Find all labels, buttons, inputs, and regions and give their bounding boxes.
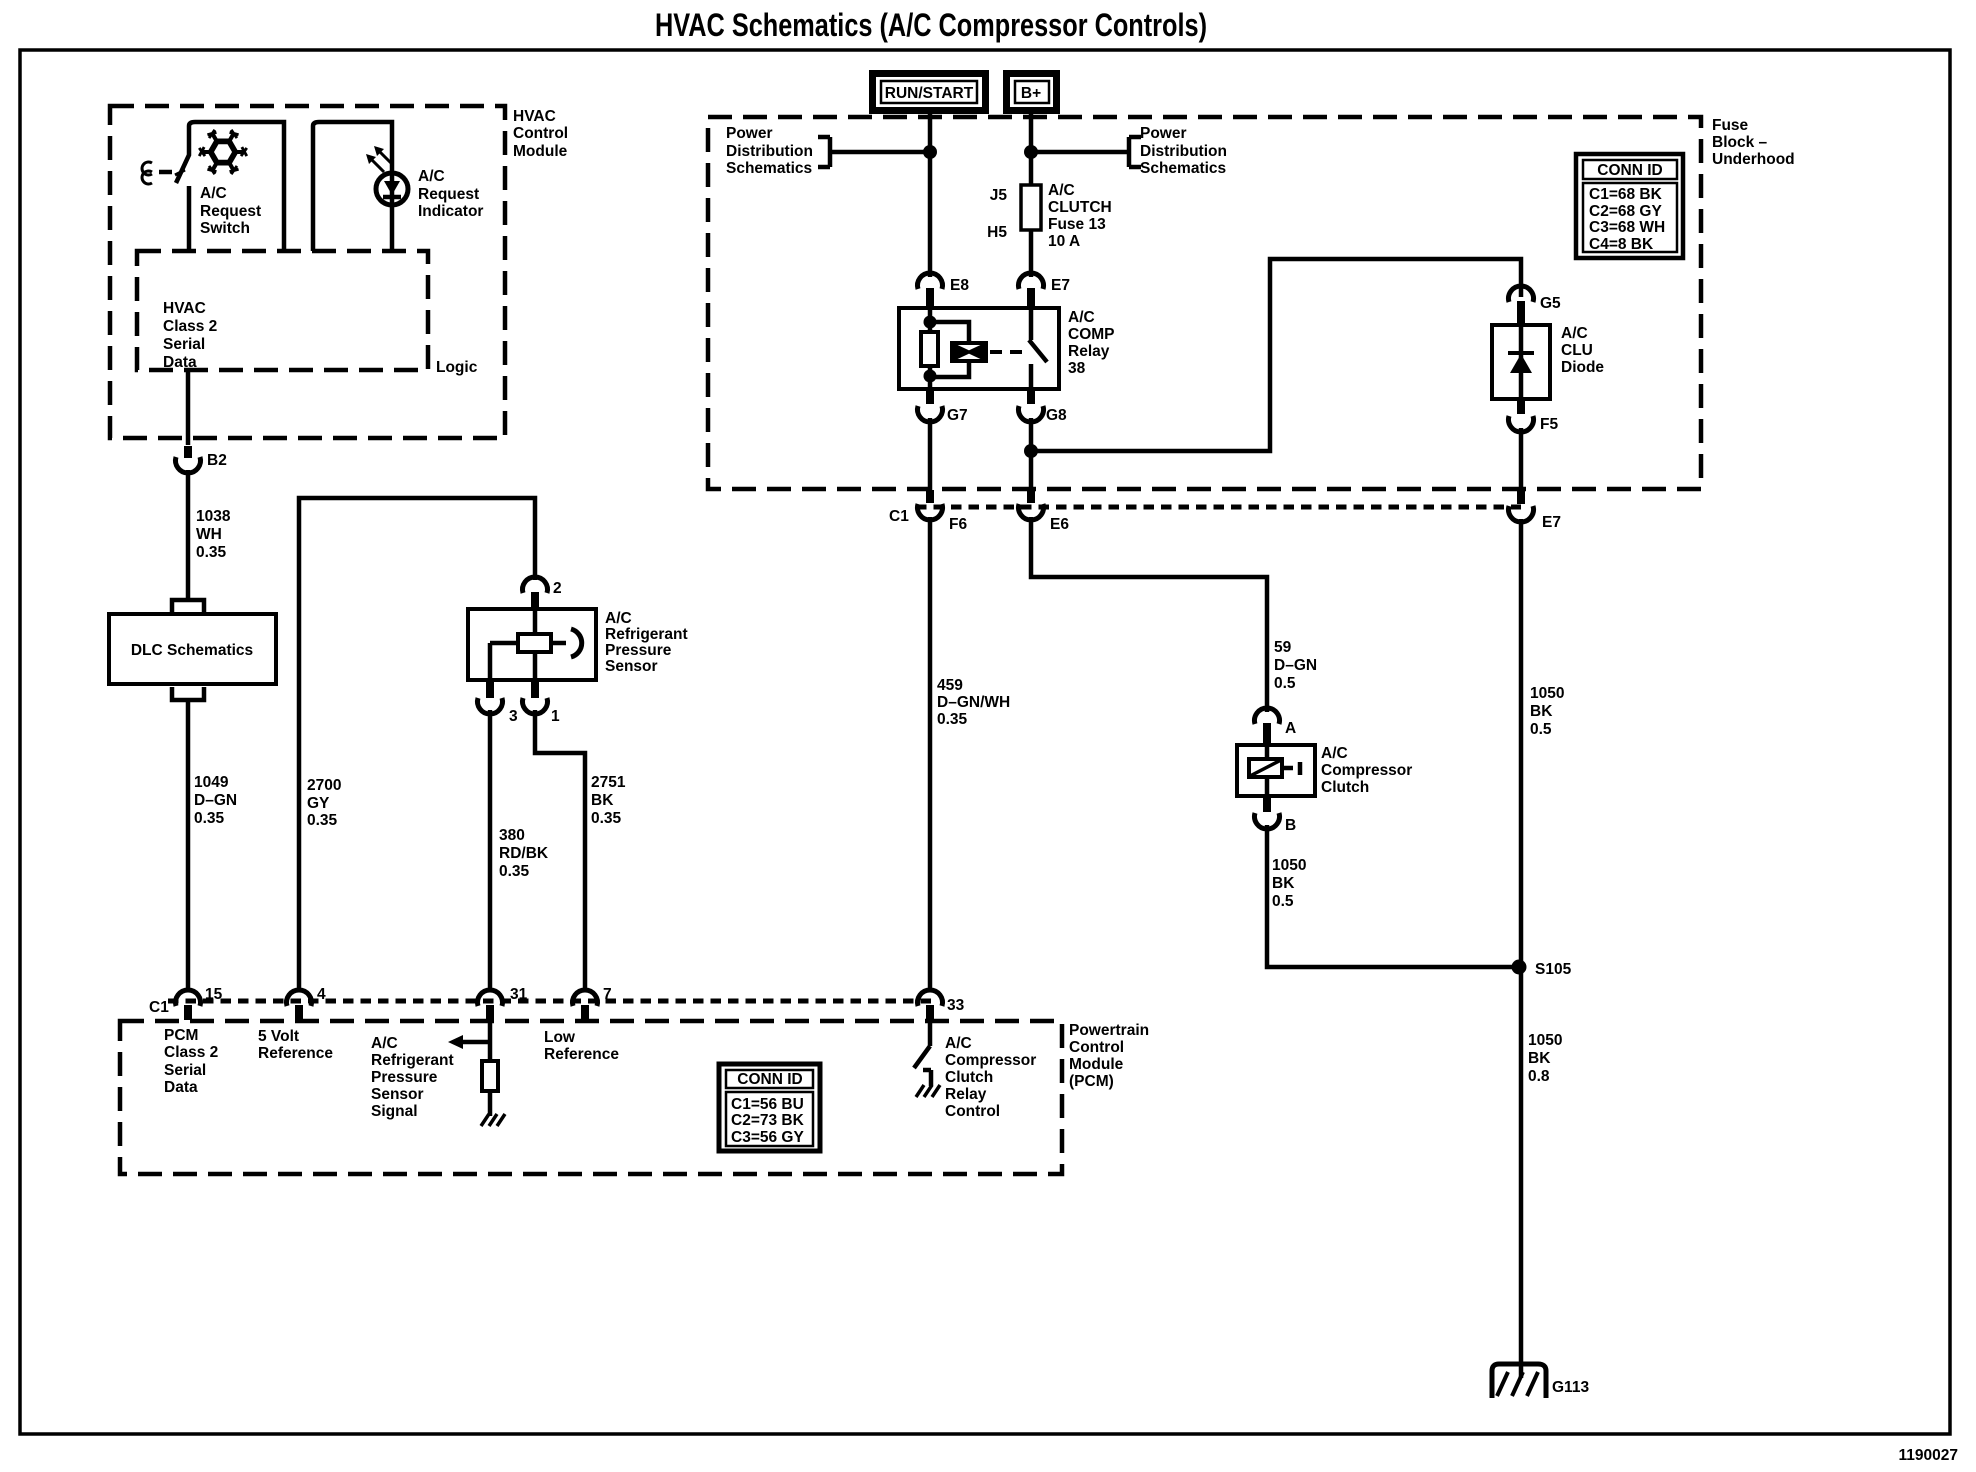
svg-text:0.35: 0.35 [196,544,227,561]
A/C request switch lower contact [187,186,192,251]
relay resistor [921,332,938,366]
svg-text:(PCM): (PCM) [1069,1073,1114,1090]
svg-text:1: 1 [551,708,560,725]
svg-text:Power: Power [726,125,773,142]
svg-text:0.35: 0.35 [591,810,622,827]
connector G8 [1027,389,1035,404]
svg-text:E6: E6 [1050,516,1069,533]
svg-text:BK: BK [1528,1050,1551,1067]
svg-text:J5: J5 [990,187,1008,204]
svg-text:PCM: PCM [164,1027,198,1044]
wire B+ to fuse [1031,114,1129,277]
svg-text:Fuse 13: Fuse 13 [1048,216,1106,233]
svg-text:HVAC: HVAC [163,300,206,317]
svg-text:D–GN/WH: D–GN/WH [937,694,1010,711]
A/C CLU diode box [1519,325,1524,399]
splice S105 [1512,960,1527,975]
svg-text:Data: Data [163,354,197,371]
svg-text:Control: Control [1069,1039,1124,1056]
svg-text:BK: BK [1272,875,1295,892]
svg-text:Indicator: Indicator [418,203,483,220]
connector G7 [926,389,934,404]
A/C compressor clutch box [1237,745,1315,796]
A/C request indicator LED D1 [376,173,408,205]
svg-text:5 Volt: 5 Volt [258,1028,299,1045]
svg-text:WH: WH [196,526,222,543]
svg-text:Refrigerant: Refrigerant [605,626,688,643]
svg-text:B: B [1285,817,1296,834]
connector pin 4 [287,990,312,1006]
svg-text:31: 31 [510,986,528,1003]
wire 1050 BK 0.5 (clutch to S105) [1267,825,1512,967]
svg-text:Powertrain: Powertrain [1069,1022,1149,1039]
svg-text:C2=68 GY: C2=68 GY [1589,203,1662,220]
svg-text:Pressure: Pressure [371,1069,438,1086]
svg-text:D–GN: D–GN [194,792,237,809]
svg-text:Relay: Relay [945,1086,987,1103]
relay coil branch wires [930,308,969,389]
svg-text:Serial: Serial [163,336,205,353]
svg-text:2700: 2700 [307,777,341,794]
svg-text:Data: Data [164,1079,198,1096]
LED arrows [372,152,392,172]
svg-text:C3=56 GY: C3=56 GY [731,1129,804,1146]
svg-text:15: 15 [205,986,223,1003]
connector pin 7 [573,990,598,1006]
wire 59 D-GN [1031,517,1267,712]
svg-text:1050: 1050 [1528,1032,1562,1049]
logic dashed box [137,251,428,370]
fuse block dashed box [708,117,1701,489]
connector pin 33 [918,990,943,1006]
svg-text:H5: H5 [987,224,1007,241]
A/C request switch blade and frame [176,122,284,251]
connector pin 31 [477,990,502,1006]
svg-text:BK: BK [1530,703,1553,720]
connector F6 [918,504,943,520]
svg-text:380: 380 [499,827,525,844]
svg-text:1038: 1038 [196,508,231,525]
svg-text:4: 4 [317,986,326,1003]
svg-text:A: A [1285,720,1296,737]
svg-text:E8: E8 [950,277,969,294]
svg-text:Class 2: Class 2 [163,318,217,335]
connector G5 [1509,286,1534,302]
svg-text:G5: G5 [1540,295,1561,312]
wire 1050 BK 0.5 (E7 down) [1519,519,1524,1378]
svg-text:Low: Low [544,1029,576,1046]
svg-text:CLUTCH: CLUTCH [1048,199,1112,216]
svg-text:1050: 1050 [1530,685,1564,702]
svg-text:HVAC Schematics (A/C Compresso: HVAC Schematics (A/C Compressor Controls… [655,7,1207,43]
svg-text:2: 2 [553,580,562,597]
connector F5 [1517,399,1525,414]
svg-text:Logic: Logic [436,359,478,376]
svg-text:CLU: CLU [1561,342,1593,359]
wire 2751 BK [535,710,585,988]
svg-text:E7: E7 [1051,277,1070,294]
connector pin 3 [486,682,494,698]
wire from logic box to B2 [186,370,191,445]
svg-text:10 A: 10 A [1048,233,1080,250]
svg-text:A/C: A/C [1321,745,1348,762]
svg-text:1190027: 1190027 [1899,1447,1959,1464]
svg-text:Distribution: Distribution [1140,143,1227,160]
svg-text:B+: B+ [1021,85,1041,102]
connector E7 [1019,273,1044,289]
connector pin 2 [523,577,548,593]
svg-text:F5: F5 [1540,416,1558,433]
svg-text:2751: 2751 [591,774,626,791]
svg-text:S105: S105 [1535,961,1572,978]
svg-text:Diode: Diode [1561,359,1604,376]
svg-text:F6: F6 [949,516,967,533]
svg-text:1049: 1049 [194,774,229,791]
svg-text:C1=68 BK: C1=68 BK [1589,186,1663,203]
A/C request switch S (terminal bracket) [142,162,152,184]
connector B [1263,796,1271,812]
ground G113 [1492,1364,1546,1398]
connector C1 pin 15 [176,990,201,1006]
connector pin 1 [531,682,539,698]
svg-text:E7: E7 [1542,514,1561,531]
diode symbol [1508,351,1534,355]
svg-text:Schematics: Schematics [1140,160,1226,177]
in-line connector below DLC [172,687,204,700]
svg-text:HVAC: HVAC [513,108,556,125]
svg-text:0.5: 0.5 [1530,721,1552,738]
connector E6 [1019,504,1044,520]
B+ feed box [1007,74,1057,111]
svg-text:Serial: Serial [164,1062,206,1079]
svg-text:A/C: A/C [1068,309,1095,326]
svg-text:Control: Control [513,125,568,142]
svg-text:Schematics: Schematics [726,160,812,177]
svg-text:Compressor: Compressor [1321,762,1412,779]
svg-text:Sensor: Sensor [371,1086,424,1103]
svg-text:A/C: A/C [200,185,227,202]
fuse block bottom connector row dotted line [916,505,1521,510]
connector A [1255,708,1280,724]
svg-text:7: 7 [603,986,612,1003]
svg-text:C4=8 BK: C4=8 BK [1589,236,1654,253]
wire 1038 WH [186,470,191,598]
svg-text:Module: Module [513,143,568,160]
svg-text:BK: BK [591,792,614,809]
svg-text:C1: C1 [889,508,909,525]
svg-text:C3=68 WH: C3=68 WH [1589,219,1665,236]
connector E8 [918,273,943,289]
wire G8 to E6 and diode loop [1031,259,1521,492]
svg-text:Relay: Relay [1068,343,1110,360]
wire F5 to E7 [1519,428,1524,492]
wire indicator branch [313,122,392,251]
snowflake icon [199,130,247,174]
A/C refrigerant pressure sensor box [468,609,596,680]
svg-text:Signal: Signal [371,1103,418,1120]
svg-text:0.35: 0.35 [937,711,968,728]
DLC Schematics box [109,614,276,684]
svg-text:Block –: Block – [1712,134,1768,151]
wire RUN/START to E8 [830,114,930,277]
A/C COMP relay K38 box [899,308,1059,389]
svg-text:Reference: Reference [544,1046,619,1063]
connector B2 [176,457,201,473]
svg-text:COMP: COMP [1068,326,1115,343]
RUN/START feed box [873,74,986,111]
svg-text:RD/BK: RD/BK [499,845,549,862]
wire 380 RD/BK [488,710,493,988]
connector E7 (fuse block bottom) [1509,506,1534,522]
CONN ID table (PCM) [719,1064,820,1151]
pin 31 internal: arrow, resistor, ground [462,1020,490,1061]
svg-text:Switch: Switch [200,220,250,237]
wire 1049 D-GN [186,700,191,990]
PCM connector row dotted line [168,999,935,1004]
svg-text:Request: Request [418,186,479,203]
svg-text:A/C: A/C [1048,182,1075,199]
svg-text:38: 38 [1068,360,1086,377]
svg-text:Request: Request [200,203,261,220]
HVAC Control Module dashed box [110,106,505,438]
svg-text:0.5: 0.5 [1272,893,1294,910]
svg-text:0.35: 0.35 [194,810,225,827]
wire 459 D-GN/WH [928,517,933,988]
relay switch [1029,308,1047,389]
sensor internal wires [490,609,566,680]
PCM dashed box [120,1021,1062,1174]
svg-text:1050: 1050 [1272,857,1306,874]
svg-text:Distribution: Distribution [726,143,813,160]
svg-text:A/C: A/C [418,168,445,185]
fuse F13 A/C CLUTCH 10A [1021,185,1041,230]
svg-text:Underhood: Underhood [1712,151,1795,168]
svg-text:0.8: 0.8 [1528,1068,1550,1085]
wire G7 to F6 [928,418,933,492]
CONN ID table (fuse block) [1576,154,1683,258]
svg-text:D–GN: D–GN [1274,657,1317,674]
relay coil (crossed box) [952,343,986,361]
svg-text:A/C: A/C [371,1035,398,1052]
svg-text:GY: GY [307,795,330,812]
svg-text:CONN ID: CONN ID [1597,162,1662,179]
relay actuation dashes [990,350,1023,354]
svg-text:Clutch: Clutch [945,1069,993,1086]
svg-text:A/C: A/C [605,610,632,627]
svg-text:3: 3 [509,708,518,725]
svg-text:B2: B2 [207,452,227,469]
svg-text:C2=73 BK: C2=73 BK [731,1112,805,1129]
svg-text:RUN/START: RUN/START [885,85,974,102]
svg-text:C1: C1 [149,999,169,1016]
svg-text:Power: Power [1140,125,1187,142]
svg-text:459: 459 [937,677,963,694]
svg-text:0.5: 0.5 [1274,675,1296,692]
svg-text:Clutch: Clutch [1321,779,1369,796]
svg-text:Refrigerant: Refrigerant [371,1052,454,1069]
pin 33 internal: switch to ground [914,1020,931,1086]
svg-text:A/C: A/C [945,1035,972,1052]
svg-text:0.35: 0.35 [307,812,338,829]
svg-text:G8: G8 [1046,407,1067,424]
svg-text:DLC Schematics: DLC Schematics [131,642,253,659]
A/C request switch dash lead [159,170,172,175]
svg-text:Reference: Reference [258,1045,333,1062]
svg-text:33: 33 [947,997,965,1014]
svg-text:Module: Module [1069,1056,1124,1073]
svg-text:59: 59 [1274,639,1292,656]
svg-text:0.35: 0.35 [499,863,530,880]
svg-text:C1=56 BU: C1=56 BU [731,1096,804,1113]
sensor resistor [518,634,551,652]
in-line connector above DLC [172,600,204,612]
sensor pressure symbol [571,629,582,657]
svg-text:Class 2: Class 2 [164,1044,218,1061]
svg-text:Pressure: Pressure [605,642,672,659]
svg-text:CONN ID: CONN ID [737,1071,802,1088]
svg-text:G113: G113 [1552,1379,1589,1396]
svg-text:Control: Control [945,1103,1000,1120]
svg-text:Compressor: Compressor [945,1052,1036,1069]
clutch coil symbol [1249,759,1282,777]
svg-text:Fuse: Fuse [1712,117,1749,134]
svg-text:G7: G7 [947,407,968,424]
wire 2700 GY [299,498,535,988]
svg-text:A/C: A/C [1561,325,1588,342]
svg-text:Sensor: Sensor [605,658,658,675]
